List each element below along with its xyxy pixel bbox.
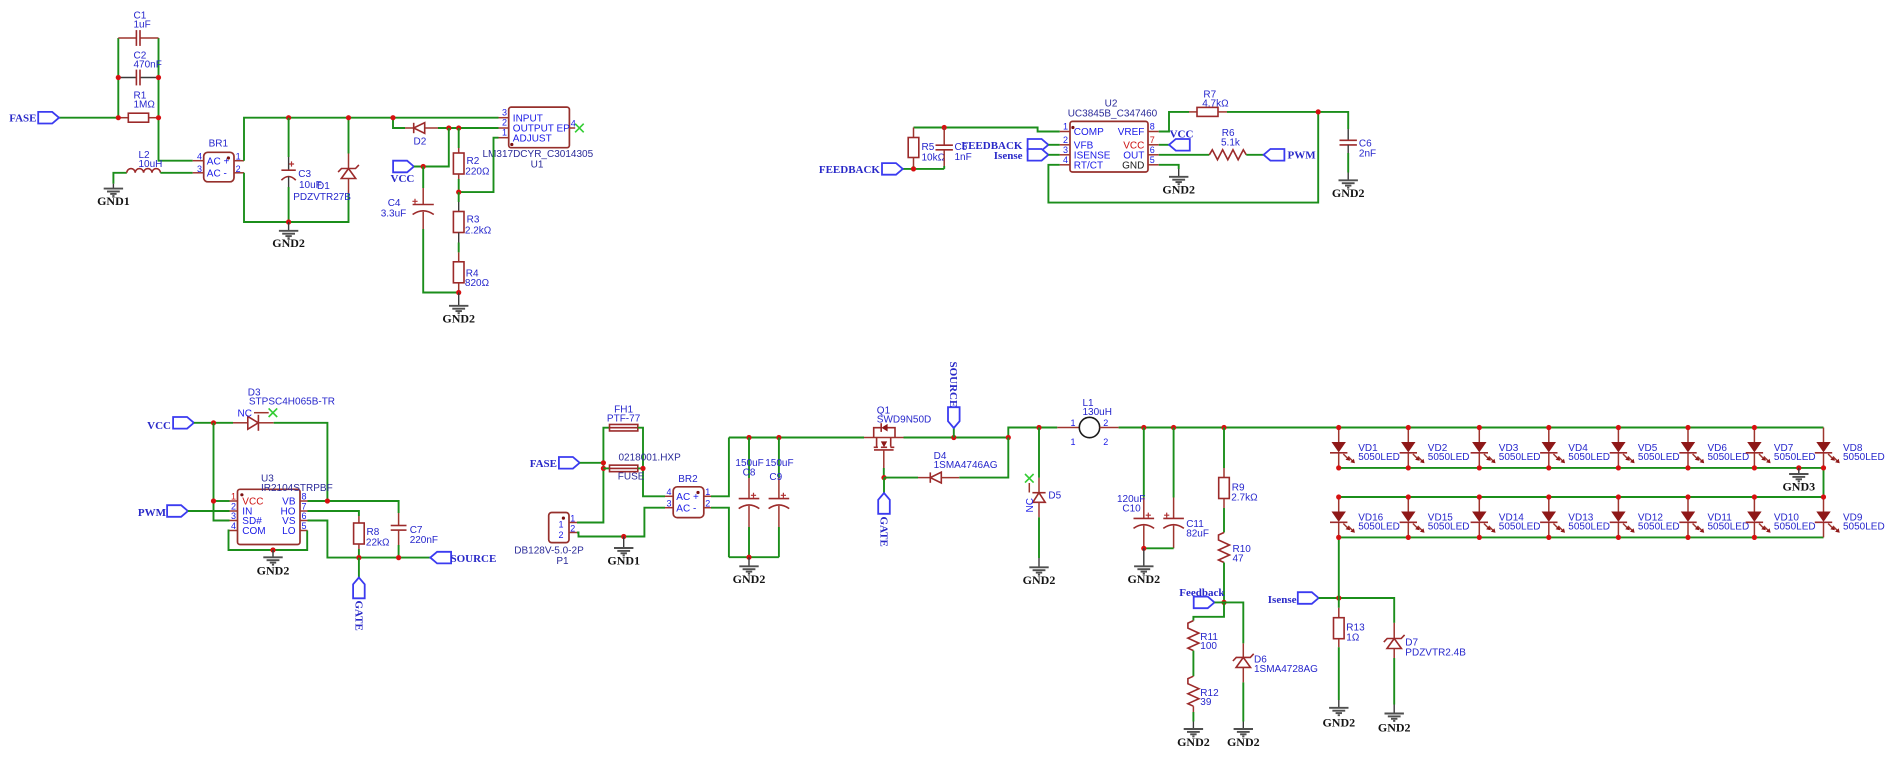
wire BR2 pin1 up <box>711 438 729 497</box>
svg-text:C3: C3 <box>298 169 311 180</box>
junction R2 bottom <box>456 190 461 195</box>
svg-text:3: 3 <box>666 499 671 509</box>
capacitor C8 <box>735 438 763 558</box>
svg-text:5050LED: 5050LED <box>1428 452 1470 463</box>
junction row1 bottom <box>1821 465 1826 470</box>
capacitor C10 <box>1117 428 1154 549</box>
net flag GATE below Q1 <box>878 478 890 547</box>
svg-text:Isense: Isense <box>994 150 1023 162</box>
svg-text:UC3845B_C347460: UC3845B_C347460 <box>1068 109 1158 120</box>
svg-text:2nF: 2nF <box>1359 148 1376 159</box>
junction GND3 tap <box>1796 465 1801 470</box>
svg-text:LM317DCYR_C3014305: LM317DCYR_C3014305 <box>483 149 594 160</box>
junction row2 top <box>1406 494 1411 499</box>
capacitor C2 <box>118 50 162 85</box>
svg-text:GND3: GND3 <box>1782 480 1815 494</box>
wire FEEDBACK flag to pin2 <box>1048 144 1059 146</box>
svg-text:3: 3 <box>197 164 202 174</box>
wire C10-C11 bottom <box>1144 547 1174 549</box>
svg-text:NC: NC <box>1025 498 1036 512</box>
ground GND2 under D6 <box>1227 722 1260 749</box>
svg-text:5050LED: 5050LED <box>1774 521 1816 532</box>
svg-text:NC: NC <box>238 408 252 419</box>
bridge rectifier BR1 <box>193 138 244 182</box>
wire FH1 right vertical <box>638 428 665 497</box>
junction row1 bottom <box>1752 465 1757 470</box>
junction row2 top <box>1616 494 1621 499</box>
wire Isense rail <box>1319 598 1395 623</box>
inductor L1 <box>1057 398 1118 447</box>
connector P1 <box>514 513 584 567</box>
junction SOURCE tap <box>951 435 956 440</box>
svg-text:1: 1 <box>1070 418 1075 428</box>
resistor R8 <box>354 516 390 558</box>
ground GND3 <box>1782 468 1815 494</box>
svg-text:2: 2 <box>570 523 575 533</box>
svg-text:GND2: GND2 <box>272 236 305 250</box>
wire FASE to fuse bus <box>580 462 604 464</box>
fuse FUSE 0218001.HXP <box>603 452 681 482</box>
svg-text:4: 4 <box>197 152 202 162</box>
svg-text:10uH: 10uH <box>139 159 163 170</box>
svg-text:SOURCE: SOURCE <box>947 362 959 408</box>
junction row1 bottom <box>1336 465 1341 470</box>
junction C2 right <box>156 75 161 80</box>
svg-text:220Ω: 220Ω <box>465 167 490 178</box>
zener diode D1 <box>293 118 359 203</box>
junction row1 top <box>1336 425 1341 430</box>
svg-text:220nF: 220nF <box>410 535 438 546</box>
junction row1 top <box>1477 425 1482 430</box>
svg-text:BR1: BR1 <box>209 138 229 149</box>
svg-text:2: 2 <box>705 499 710 509</box>
wire D2 branch <box>393 118 405 128</box>
wire Q1 gate node <box>883 468 885 478</box>
svg-text:5050LED: 5050LED <box>1568 521 1610 532</box>
ground GND1 under L2 <box>97 184 130 208</box>
wire FASE to R1 node <box>59 117 118 119</box>
svg-text:P1: P1 <box>556 556 569 567</box>
wire BR2 pin2 down <box>711 508 729 558</box>
wire LED row2 anode rail <box>1339 496 1824 498</box>
svg-text:ADJUST: ADJUST <box>513 133 552 144</box>
ground GND2 under C6 <box>1332 173 1365 201</box>
svg-text:10kΩ: 10kΩ <box>922 152 946 163</box>
capacitor C11 <box>1163 428 1209 549</box>
svg-text:GND2: GND2 <box>1322 715 1355 729</box>
svg-text:82uF: 82uF <box>1186 528 1209 539</box>
led VD5 <box>1610 428 1680 468</box>
led VD3 <box>1471 428 1541 468</box>
svg-text:1SMA4746AG: 1SMA4746AG <box>934 460 998 471</box>
led VD12 <box>1610 497 1680 537</box>
capacitor C9 <box>765 438 793 558</box>
svg-text:GND1: GND1 <box>607 553 640 567</box>
svg-text:VCC: VCC <box>1170 129 1194 141</box>
svg-text:U1: U1 <box>531 160 544 171</box>
svg-text:5050LED: 5050LED <box>1358 452 1400 463</box>
wire GND pin5 <box>1159 165 1179 169</box>
svg-text:5050LED: 5050LED <box>1428 521 1470 532</box>
junction VCC branch <box>211 420 216 425</box>
svg-text:2.7kΩ: 2.7kΩ <box>1231 493 1258 504</box>
net flag GATE down <box>352 578 364 631</box>
wire Feedback junction right <box>1215 602 1244 643</box>
svg-text:1: 1 <box>1063 122 1068 132</box>
svg-text:1SMA4728AG: 1SMA4728AG <box>1254 664 1318 675</box>
junction row2 top <box>1821 494 1826 499</box>
junction row1 bottom <box>1406 465 1411 470</box>
svg-text:GATE: GATE <box>352 601 364 631</box>
junction row1 top <box>1616 425 1621 430</box>
bridge rectifier BR2 <box>665 474 711 518</box>
svg-text:GND1: GND1 <box>97 194 130 208</box>
svg-text:470nF: 470nF <box>134 59 162 70</box>
wire left vertical C1/C2/R1 bus <box>117 38 119 118</box>
svg-text:820Ω: 820Ω <box>465 278 490 289</box>
ground GND2 under U3 <box>257 550 290 578</box>
ground GND2 under C3 <box>272 222 305 250</box>
resistor R3 <box>453 192 491 252</box>
junction row2 bottom <box>1546 535 1551 540</box>
svg-text:4: 4 <box>1063 155 1068 165</box>
wire VB to C7 <box>308 501 399 513</box>
junction R5 bottom <box>911 166 916 171</box>
svg-text:GND2: GND2 <box>1162 183 1195 197</box>
led VD16 <box>1330 497 1400 537</box>
junction D5 branch <box>1036 425 1041 430</box>
junction fuse bus b <box>601 466 606 471</box>
junction row1 bottom <box>1477 465 1482 470</box>
svg-text:GATE: GATE <box>878 517 890 547</box>
junction U3 ground tap <box>270 547 275 552</box>
junction C10 top <box>1141 425 1146 430</box>
svg-text:1Ω: 1Ω <box>1346 633 1360 644</box>
junction R4 bottom <box>456 290 461 295</box>
wire LED row1 anode rail <box>1339 427 1824 429</box>
svg-text:1MΩ: 1MΩ <box>134 100 156 111</box>
svg-text:100: 100 <box>1200 641 1217 652</box>
svg-text:GND: GND <box>1122 160 1144 171</box>
wire BR1 pin1 to input rail <box>244 118 499 161</box>
junction C2 left <box>116 75 121 80</box>
svg-text:1: 1 <box>502 128 507 138</box>
svg-text:SOURCE: SOURCE <box>451 553 497 565</box>
junction D2-R2 a <box>446 125 451 130</box>
junction C3 top <box>286 115 291 120</box>
net flag Isense bottom <box>1268 592 1319 606</box>
wire D4 to source rail <box>959 438 1008 478</box>
svg-text:47: 47 <box>1233 554 1245 565</box>
net flag FEEDBACK pin2 <box>961 139 1048 152</box>
junction C8 bottom <box>746 555 751 560</box>
svg-text:2: 2 <box>236 164 241 174</box>
ground GND2 under R12 <box>1177 722 1210 749</box>
svg-text:2: 2 <box>1063 135 1068 145</box>
wire LED row1 cathode rail <box>1339 467 1824 469</box>
led VD10 <box>1746 497 1816 537</box>
svg-text:2: 2 <box>1103 437 1108 447</box>
svg-text:AC +: AC + <box>676 492 699 503</box>
svg-text:AC -: AC - <box>207 168 227 179</box>
svg-text:4: 4 <box>571 118 576 128</box>
svg-text:D2: D2 <box>414 137 427 148</box>
junction row1 top <box>1685 425 1690 430</box>
svg-text:Feedback: Feedback <box>1179 587 1225 599</box>
svg-text:5: 5 <box>1150 155 1155 165</box>
capacitor C7 <box>391 513 438 558</box>
wire L1 to LED rail <box>1119 427 1339 429</box>
wire VCC to D3 <box>194 422 233 424</box>
svg-text:3: 3 <box>231 511 236 521</box>
junction row2 top <box>1752 494 1757 499</box>
resistor R4 <box>453 252 489 292</box>
svg-text:7: 7 <box>302 501 307 511</box>
net flag PWM right <box>1264 149 1317 162</box>
svg-text:FEEDBACK: FEEDBACK <box>819 164 881 176</box>
junction row2 bottom <box>1752 535 1757 540</box>
wire L2 to BR1 pin3 <box>160 172 192 174</box>
led VD15 <box>1400 497 1470 537</box>
net flag FASE mid <box>530 457 580 470</box>
svg-text:BR2: BR2 <box>678 474 698 485</box>
junction C10 bottom <box>1141 546 1146 551</box>
fuse FH1 <box>607 405 641 431</box>
ground GND2 under D7 <box>1378 705 1411 735</box>
junction GND1 tap <box>621 534 626 539</box>
junction row1 top <box>1752 425 1757 430</box>
wire VD16 to Isense <box>1338 537 1340 598</box>
svg-text:2: 2 <box>502 118 507 128</box>
wire GATE drop <box>358 558 360 578</box>
resistor R11 <box>1188 621 1218 653</box>
junction row2 bottom <box>1477 535 1482 540</box>
resistor R7 <box>1189 90 1229 117</box>
wire right vertical bus to BR1 pin4 <box>159 38 193 161</box>
ground GND2 under R4 <box>442 293 475 326</box>
wire positive rail to Q1 <box>729 437 864 439</box>
led VD8 <box>1815 428 1885 468</box>
wire D2 to U1 pin2 <box>438 127 499 129</box>
svg-text:5050LED: 5050LED <box>1499 452 1541 463</box>
junction row2 bottom <box>1685 535 1690 540</box>
capacitor C1 <box>118 10 158 46</box>
svg-text:1: 1 <box>558 520 563 530</box>
net flag Feedback <box>1179 587 1225 608</box>
svg-text:6: 6 <box>1150 145 1155 155</box>
svg-text:GND2: GND2 <box>1378 721 1411 735</box>
schottky diode D3 <box>233 387 335 430</box>
wire R11 to R12 <box>1192 651 1194 677</box>
svg-text:GND2: GND2 <box>1023 573 1056 587</box>
svg-text:5.1k: 5.1k <box>1221 138 1241 149</box>
svg-text:COMP: COMP <box>1074 127 1104 138</box>
capacitor C5 <box>936 128 972 169</box>
svg-text:STPSC4H065B-TR: STPSC4H065B-TR <box>249 396 335 407</box>
svg-text:GND2: GND2 <box>1127 572 1160 586</box>
svg-text:4.7kΩ: 4.7kΩ <box>1202 99 1229 110</box>
svg-text:1: 1 <box>570 513 575 523</box>
svg-text:1uF: 1uF <box>134 19 151 30</box>
wire R7 to C6 <box>1227 112 1348 129</box>
wire Isense flag to pin3 <box>1048 154 1059 156</box>
junction row2 bottom <box>1336 535 1341 540</box>
zener diode D6 <box>1233 643 1318 721</box>
junction D1 top <box>346 115 351 120</box>
svg-text:1: 1 <box>705 487 710 497</box>
wire P1 pin2 to BR2 pin3 <box>577 508 665 537</box>
svg-text:6: 6 <box>302 511 307 521</box>
no-connect NC pin of D5 <box>1025 474 1036 513</box>
svg-text:5050LED: 5050LED <box>1358 521 1400 532</box>
svg-text:8: 8 <box>1150 122 1155 132</box>
led VD9 <box>1815 497 1885 537</box>
junction C7 bottom <box>396 555 401 560</box>
svg-text:7: 7 <box>1150 135 1155 145</box>
junction C3 bottom / GND2 tap <box>286 219 291 224</box>
wire COMP net <box>914 128 1060 132</box>
wire ADJUST to R2/R3 node <box>459 138 499 192</box>
voltage regulator U1 LM317 <box>483 107 594 170</box>
wire RT/CT loop <box>1048 112 1318 203</box>
junction C9 top <box>776 435 781 440</box>
led VD6 <box>1679 428 1749 468</box>
svg-text:FUSE: FUSE <box>618 471 645 482</box>
wire fuse left vertical <box>577 428 610 523</box>
svg-text:GND2: GND2 <box>442 312 475 326</box>
resistor R9 <box>1219 428 1258 533</box>
svg-text:VCC: VCC <box>147 420 171 432</box>
svg-text:D1: D1 <box>317 181 330 192</box>
svg-text:2: 2 <box>1103 418 1108 428</box>
inductor L2 <box>113 150 162 184</box>
junction Isense/R13 <box>1336 595 1341 600</box>
led VD2 <box>1400 428 1470 468</box>
svg-text:5: 5 <box>302 521 307 531</box>
wire LED row right vertical <box>1823 468 1825 497</box>
zener diode D4 <box>918 451 998 483</box>
junction R9 top <box>1221 425 1226 430</box>
svg-text:PTF-77: PTF-77 <box>607 414 641 425</box>
net flag PWM left <box>138 505 188 519</box>
junction fuse bus a <box>601 460 606 465</box>
svg-text:FASE: FASE <box>9 113 36 125</box>
svg-text:RT/CT: RT/CT <box>1074 160 1103 171</box>
wire VCC vertical to pins 1 and 3 <box>214 423 230 521</box>
svg-text:SWD9N50D: SWD9N50D <box>877 414 931 425</box>
svg-text:1: 1 <box>1070 437 1075 447</box>
svg-text:PWM: PWM <box>1288 150 1317 162</box>
svg-text:IR2104STRPBF: IR2104STRPBF <box>261 483 333 494</box>
wire jog up to L1 <box>1008 428 1057 438</box>
junction row2 top <box>1546 494 1551 499</box>
resistor R13 <box>1334 598 1366 700</box>
svg-text:2: 2 <box>558 530 563 540</box>
capacitor C3 <box>281 118 321 222</box>
ground GND2 under C10 <box>1127 548 1160 586</box>
svg-text:5050LED: 5050LED <box>1638 452 1680 463</box>
svg-text:5050LED: 5050LED <box>1708 521 1750 532</box>
junction row1 bottom <box>1616 465 1621 470</box>
junction row1 bottom <box>1685 465 1690 470</box>
svg-text:0218001.HXP: 0218001.HXP <box>619 452 682 463</box>
svg-text:1nF: 1nF <box>955 152 972 163</box>
zener diode D7 <box>1384 623 1466 705</box>
svg-text:GND2: GND2 <box>257 564 290 578</box>
junction FH1 right <box>640 466 645 471</box>
svg-text:AC -: AC - <box>676 503 696 514</box>
svg-text:GND2: GND2 <box>733 572 766 586</box>
junction row1 top <box>1406 425 1411 430</box>
led VD7 <box>1746 428 1816 468</box>
net flag VCC pin7 <box>1159 129 1194 151</box>
led VD13 <box>1540 497 1610 537</box>
net flag VCC left <box>147 417 194 432</box>
junction row2 bottom <box>1616 535 1621 540</box>
svg-text:LO: LO <box>282 526 296 537</box>
junction VCC-C4 <box>421 164 426 169</box>
diode D5 <box>1032 428 1061 559</box>
junction row2 top <box>1685 494 1690 499</box>
junction C11 top <box>1171 425 1176 430</box>
svg-text:4: 4 <box>231 521 236 531</box>
junction gate <box>881 475 886 480</box>
net flag Isense pin3 <box>994 149 1049 162</box>
junction row2 bottom <box>1406 535 1411 540</box>
gate driver U3 IR2104 <box>230 473 333 544</box>
svg-text:R3: R3 <box>467 215 480 226</box>
svg-text:3: 3 <box>1063 145 1068 155</box>
svg-text:D5: D5 <box>1048 490 1061 501</box>
net flag VCC top <box>391 161 415 185</box>
svg-text:Isense: Isense <box>1268 594 1297 606</box>
resistor R1 <box>118 91 158 123</box>
junction row2 top <box>1336 494 1341 499</box>
ground GND1 under P1 <box>607 537 640 568</box>
resistor R12 <box>1188 676 1219 721</box>
ground GND2 under D5 <box>1023 558 1056 587</box>
junction R7/C6/RT vertical <box>1316 109 1321 114</box>
svg-text:FASE: FASE <box>530 458 557 470</box>
junction row1 bottom <box>1546 465 1551 470</box>
junction D2 branch <box>390 115 395 120</box>
wire negative rail <box>729 556 779 558</box>
pwm controller U2 UC3845B <box>1060 99 1159 173</box>
svg-text:GND2: GND2 <box>1332 186 1365 200</box>
junction C8 top <box>746 435 751 440</box>
resistor R2 <box>453 128 490 192</box>
svg-text:5050LED: 5050LED <box>1843 521 1885 532</box>
wire VCC to R2 branch <box>414 128 449 167</box>
svg-text:22kΩ: 22kΩ <box>366 537 390 548</box>
junction VB/D3 <box>325 498 330 503</box>
svg-text:DB128V-5.0-2P: DB128V-5.0-2P <box>514 545 584 556</box>
ground GND2 under C8 <box>733 557 766 586</box>
svg-text:1: 1 <box>236 152 241 162</box>
svg-text:C8: C8 <box>743 468 756 479</box>
diode D2 <box>405 123 438 148</box>
svg-text:PDZVTR2.4B: PDZVTR2.4B <box>1405 647 1466 658</box>
wire BR1 pin2 to bottom rail <box>244 173 349 222</box>
svg-text:130uH: 130uH <box>1083 407 1112 418</box>
net flag FASE <box>9 112 59 125</box>
svg-text:AC +: AC + <box>207 156 230 167</box>
junction R1 right <box>156 115 161 120</box>
svg-text:VREF: VREF <box>1118 127 1145 138</box>
junction row1 top <box>1546 425 1551 430</box>
wire VREF to R7 <box>1159 112 1189 132</box>
svg-text:2: 2 <box>231 501 236 511</box>
